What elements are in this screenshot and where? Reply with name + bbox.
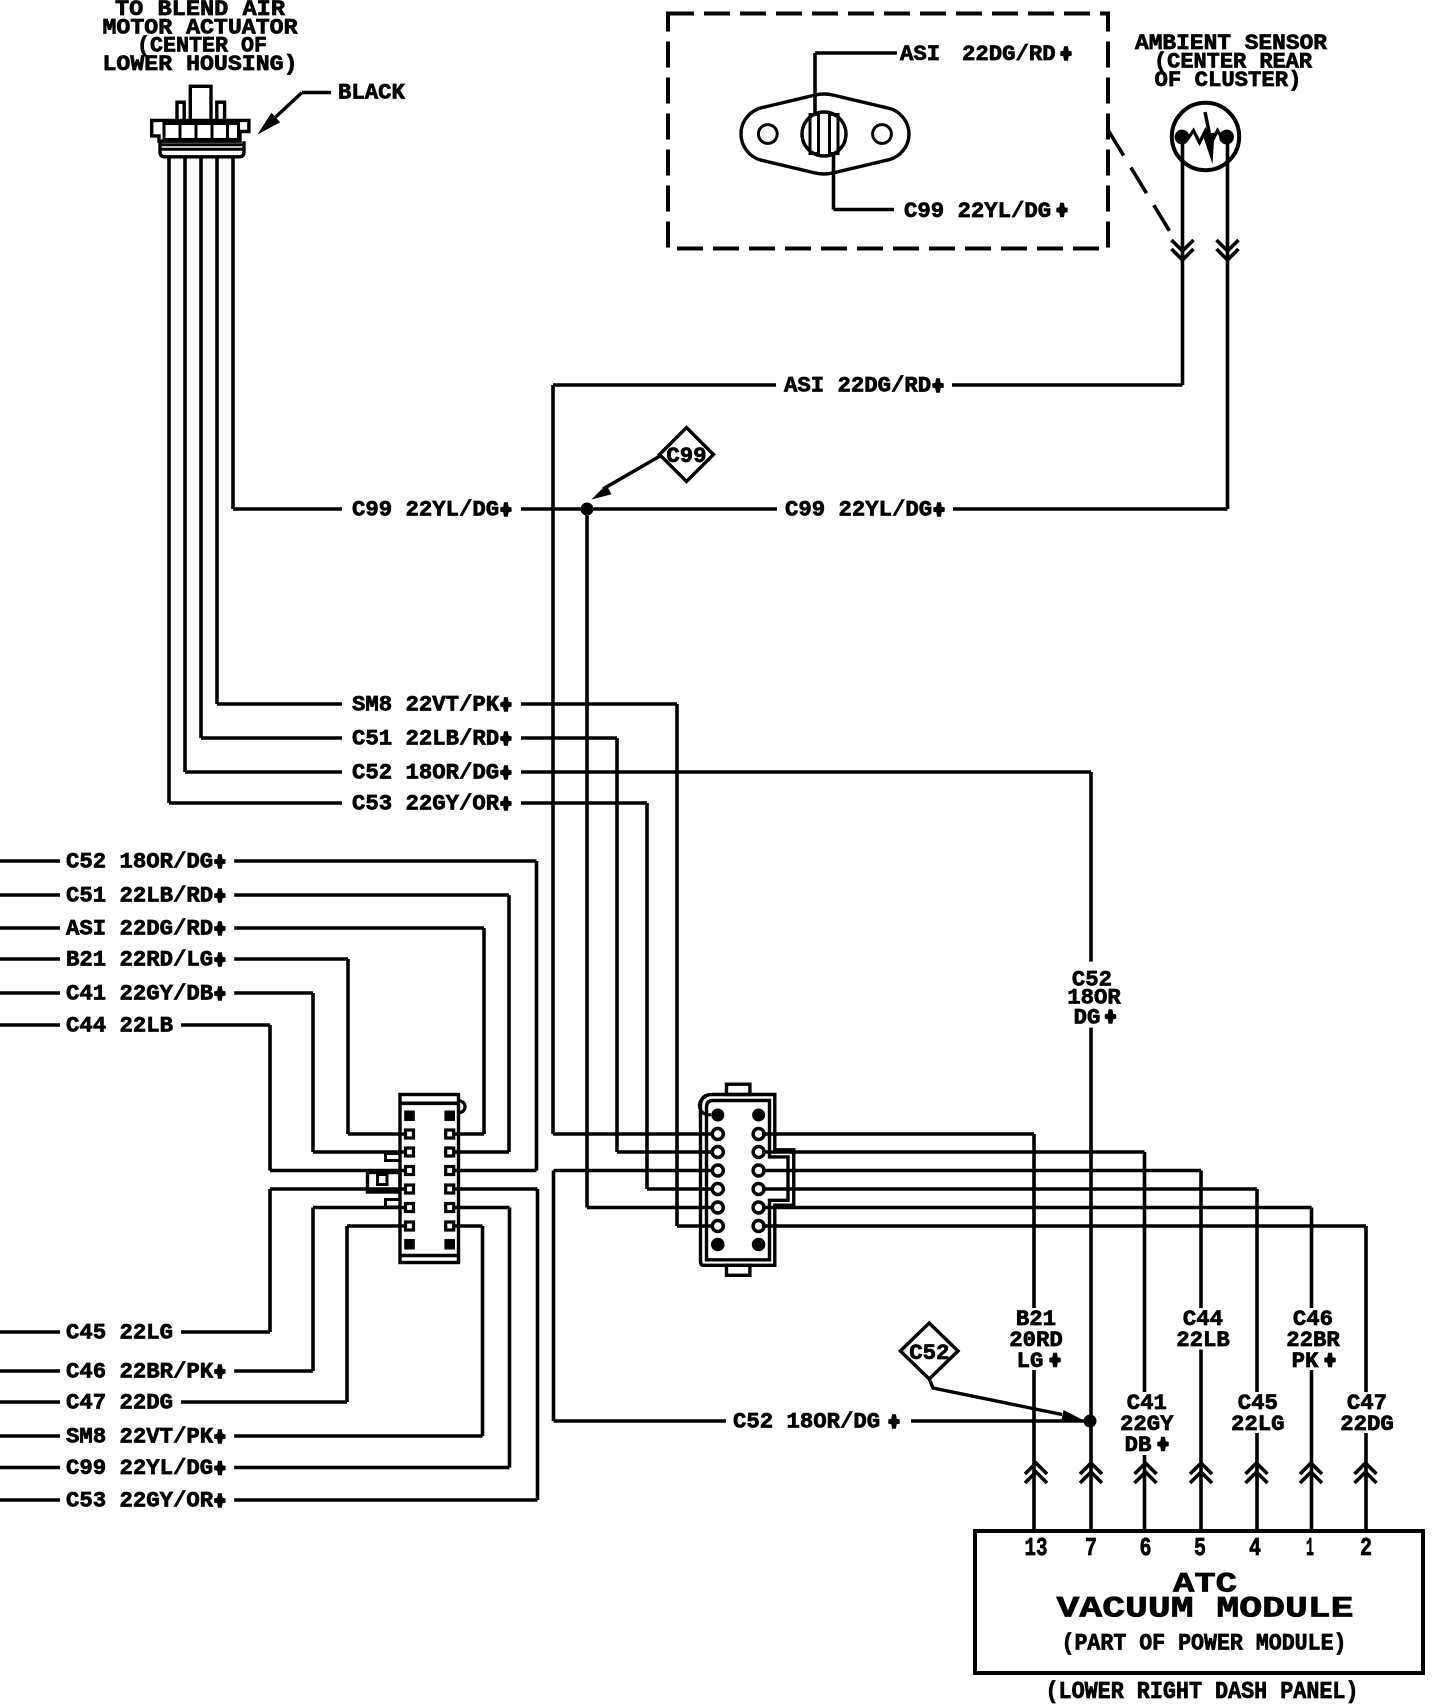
svg-text:(PART OF POWER MODULE): (PART OF POWER MODULE)	[1062, 1631, 1347, 1657]
svg-text:DB: DB	[1125, 1432, 1152, 1458]
svg-text:C47 22DG: C47 22DG	[66, 1390, 173, 1416]
svg-text:4: 4	[1249, 1533, 1261, 1563]
svg-text:22DG: 22DG	[1340, 1411, 1394, 1437]
svg-text:13: 13	[1025, 1533, 1048, 1563]
svg-text:LOWER HOUSING): LOWER HOUSING)	[103, 51, 298, 77]
svg-text:1: 1	[1306, 1533, 1314, 1563]
svg-text:C52 18OR/DG: C52 18OR/DG	[66, 849, 213, 875]
svg-text:DG: DG	[1074, 1005, 1101, 1031]
svg-text:C53 22GY/OR: C53 22GY/OR	[66, 1488, 214, 1514]
svg-text:C99 22YL/DG: C99 22YL/DG	[352, 497, 499, 523]
svg-text:C51 22LB/RD: C51 22LB/RD	[66, 883, 213, 909]
svg-text:SM8 22VT/PK: SM8 22VT/PK	[352, 692, 500, 718]
svg-text:C52: C52	[909, 1340, 949, 1366]
svg-text:SM8 22VT/PK: SM8 22VT/PK	[66, 1424, 214, 1450]
svg-text:OF CLUSTER): OF CLUSTER)	[1155, 67, 1302, 93]
svg-text:5: 5	[1194, 1533, 1206, 1563]
svg-text:C99: C99	[666, 443, 706, 469]
svg-text:ASI 22DG/RD: ASI 22DG/RD	[784, 373, 931, 399]
svg-text:C99 22YL/DG: C99 22YL/DG	[66, 1455, 213, 1481]
svg-text:(LOWER RIGHT DASH PANEL): (LOWER RIGHT DASH PANEL)	[1046, 1679, 1359, 1704]
svg-text:C41 22GY/DB: C41 22GY/DB	[66, 981, 213, 1007]
svg-text:BLACK: BLACK	[338, 80, 406, 106]
svg-text:C52 18OR/DG: C52 18OR/DG	[733, 1409, 880, 1435]
svg-text:C99 22YL/DG: C99 22YL/DG	[904, 198, 1051, 224]
svg-text:ASI: ASI	[900, 41, 940, 67]
svg-text:C52 18OR/DG: C52 18OR/DG	[352, 760, 499, 786]
svg-text:C99 22YL/DG: C99 22YL/DG	[785, 497, 932, 523]
svg-text:C51 22LB/RD: C51 22LB/RD	[352, 726, 499, 752]
svg-text:22DG/RD: 22DG/RD	[962, 41, 1056, 67]
svg-text:ASI 22DG/RD: ASI 22DG/RD	[66, 916, 213, 942]
svg-text:C44 22LB: C44 22LB	[66, 1013, 173, 1039]
svg-text:22LG: 22LG	[1231, 1411, 1285, 1437]
svg-text:6: 6	[1140, 1533, 1152, 1563]
svg-text:C46 22BR/PK: C46 22BR/PK	[66, 1359, 214, 1385]
svg-text:LG: LG	[1017, 1348, 1044, 1374]
svg-text:PK: PK	[1292, 1348, 1319, 1374]
svg-text:VACUUM MODULE: VACUUM MODULE	[1057, 1593, 1354, 1627]
svg-text:C45 22LG: C45 22LG	[66, 1320, 173, 1346]
svg-text:22LB: 22LB	[1176, 1327, 1230, 1353]
svg-text:7: 7	[1085, 1533, 1097, 1563]
svg-text:B21 22RD/LG: B21 22RD/LG	[66, 947, 213, 973]
svg-text:C53 22GY/OR: C53 22GY/OR	[352, 791, 500, 817]
svg-text:2: 2	[1360, 1533, 1372, 1563]
